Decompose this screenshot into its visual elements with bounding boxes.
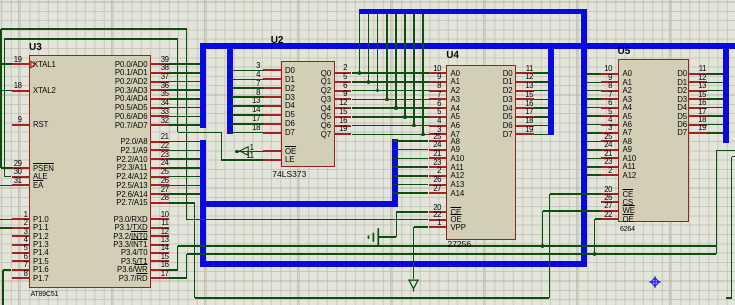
U5 pin number 22 — [604, 210, 612, 219]
U3 pin name P0.0/AD0 — [115, 60, 148, 69]
wire A14 from bus V3 to U4 — [393, 192, 428, 194]
U2 pin name Q0 — [321, 69, 331, 78]
U3 pin number 24 — [161, 158, 169, 167]
U3 pin name P0.1/AD1 — [115, 68, 148, 77]
wire U5 A8 from bus V5 — [586, 141, 601, 143]
wire U4 CE from pin — [396, 211, 428, 213]
wire U5 A9 from bus V5 — [586, 149, 601, 151]
U4 reference label — [446, 51, 459, 61]
wire A15 up to U5 CE — [549, 194, 551, 298]
U4 pin number 16 — [525, 99, 533, 108]
U4 pin name A0 — [451, 69, 460, 78]
U4 pin number 19 — [525, 125, 533, 134]
U3 pin name P0.6/AD6 — [115, 112, 148, 121]
U5 pin name CS — [623, 198, 634, 207]
wire P2.2/A10 to bus V1b — [169, 158, 201, 160]
U5 pin number 7 — [608, 90, 612, 99]
bus H1 top address bus — [359, 9, 587, 14]
U4 pin name A4 — [451, 104, 460, 113]
wire U5 WE horizontal — [543, 210, 601, 212]
U5 pin number 15 — [698, 90, 706, 99]
wire D2 from bus V2 to U2 — [231, 87, 265, 89]
U3 pin name P2.7/A15 — [116, 198, 147, 207]
U3 pin name P3.4 — [121, 248, 148, 257]
wire U4 D4 to bus V4 — [534, 107, 550, 109]
junction dot A2 riser — [376, 89, 380, 93]
U4 pin name OE — [451, 215, 462, 224]
U3 pin 10 stub P3.0 — [150, 218, 169, 220]
U5 pin 18 stub D6 — [688, 124, 707, 126]
U3 pin 7 stub P1.6 — [12, 269, 30, 271]
U4 pin name A10 — [451, 154, 465, 163]
U3 pin 30 stub — [12, 176, 30, 178]
U3 pin number 32 — [161, 116, 169, 125]
U3 pin name P2.6/A14 — [116, 190, 147, 199]
U3 pin number 2 — [24, 218, 28, 227]
junction dot OE-RD — [593, 252, 597, 256]
U3 pin number 29 — [14, 159, 22, 168]
wire WR/RD riser at right — [716, 151, 718, 255]
U5 pin number 24 — [604, 140, 612, 149]
U3 pin number 36 — [161, 81, 169, 90]
wire XTAL2 to off-sheet left — [0, 90, 12, 92]
wire U5 D5 to bus V6 — [707, 115, 724, 117]
bus V6 U5 data tap segment — [723, 46, 729, 143]
U4 pin name A1 — [451, 77, 460, 86]
U5 pin 11 stub D0 — [688, 73, 707, 75]
U5 pin name CE — [623, 190, 634, 199]
U2 pin number 5 — [343, 72, 347, 81]
bus V5 U5 address spine — [581, 12, 587, 267]
U2 pin number 6 — [343, 81, 347, 90]
U3 pin number 23 — [161, 150, 169, 159]
U4 pin 16 stub D4 — [515, 107, 534, 109]
U5 pin name WE — [623, 206, 635, 215]
U2 pin 5 stub Q1 — [334, 81, 352, 83]
U4 pin 3 stub A7 — [429, 133, 448, 135]
U4 pin 5 stub A5 — [429, 116, 448, 118]
U2 reference label — [271, 36, 284, 46]
U2 pin 19 stub Q7 — [334, 133, 352, 135]
U3 pin number 11 — [161, 218, 168, 227]
ground symbol (rotated) on U4 CE net — [366, 226, 382, 250]
U5 pin name D2 — [677, 86, 687, 95]
U4 pin 26 stub A13 — [429, 184, 448, 186]
U4 pin 13 stub D2 — [515, 90, 534, 92]
wire U5 D4 to bus V6 — [707, 107, 724, 109]
U2 pin number 3 — [256, 61, 260, 70]
U3 pin name RST — [33, 120, 48, 129]
U2 pin 8 stub D3 — [263, 96, 282, 98]
wire Q5 to U4 A5 — [352, 116, 429, 118]
U5 pin name A8 — [623, 137, 632, 146]
U4 pin 17 stub D5 — [515, 116, 534, 118]
wire A1 riser to top bus — [368, 14, 370, 82]
U5 pin 12 stub D1 — [688, 81, 707, 83]
U2 pin name D5 — [285, 110, 295, 119]
wire PSEN from pin — [1, 167, 12, 169]
wire D5 from bus V2 to U2 — [231, 114, 265, 116]
U3 pin number 10 — [161, 210, 169, 219]
U4 pin name D0 — [503, 69, 513, 78]
wire U5 D1 to bus V6 — [707, 82, 724, 84]
U3 pin 35 stub P0.4/AD4 — [150, 98, 169, 100]
wire A3 riser to top bus — [386, 14, 388, 99]
wire right edge riser — [731, 157, 733, 298]
junction dot A4 riser — [394, 106, 398, 110]
U3 pin number 27 — [161, 185, 169, 194]
U3 pin name <span class="ov">EA</span> — [33, 181, 43, 190]
U3 pin name P3.3 — [113, 240, 147, 249]
wire A0 riser to top bus — [359, 14, 361, 73]
wire P2.3/A11 to bus V1b — [169, 167, 201, 169]
U3 pin name P2.0/A8 — [120, 137, 147, 146]
U2 pin name Q6 — [321, 121, 331, 130]
U3 pin 13 stub P3.3 — [150, 244, 169, 246]
U3 pin number 8 — [24, 269, 28, 278]
U2 pin number 12 — [339, 98, 347, 107]
wire U4 D0 to bus V4 — [534, 72, 550, 74]
U4 pin name A12 — [451, 171, 465, 180]
wire P2.4/A12 to bus V1b — [169, 176, 201, 178]
U5 pin number 9 — [608, 73, 612, 82]
U4 pin 27 stub A14 — [429, 192, 448, 194]
U3 pin number 19 — [14, 55, 22, 64]
U5 pin number 19 — [698, 123, 706, 132]
U4 pin 12 stub D1 — [515, 81, 534, 83]
U2 pin name Q2 — [321, 86, 331, 95]
wire WR up — [177, 246, 179, 270]
U3 pin name P3.7 — [119, 274, 148, 283]
wire WR long to right — [178, 245, 717, 247]
U3 pin 8 stub P1.7 — [12, 277, 30, 279]
U4 pin name D4 — [503, 104, 513, 113]
junction dot A0 riser — [358, 71, 362, 75]
wire P0.7/AD7 to bus V1 — [169, 124, 201, 126]
U3 pin 14 stub P3.4 — [150, 252, 169, 254]
U4 pin 24 stub A9 — [429, 149, 448, 151]
wire A15 along bottom — [195, 297, 550, 299]
U3 pin 5 stub P1.4 — [12, 252, 30, 254]
U3 pin 6 stub P1.5 — [12, 260, 30, 262]
U4 pin name D5 — [503, 112, 513, 121]
U3 pin 4 stub P1.3 — [12, 244, 30, 246]
U5 pin 27 stub WE — [601, 210, 620, 212]
wire P0.3/AD3 to bus V1 — [169, 89, 201, 91]
U2 pin name OE — [285, 147, 296, 156]
U3 pin name P0.7/AD7 — [115, 121, 148, 130]
U2 pin number 13 — [252, 96, 260, 105]
U3 pin number 3 — [24, 227, 28, 236]
U5 pin name D3 — [677, 95, 687, 104]
wire A15 down column — [194, 203, 196, 298]
U5 pin number 8 — [608, 81, 612, 90]
wire P2.1/A9 to bus V1b — [169, 150, 201, 152]
U2 pin number 4 — [256, 70, 260, 79]
wire D7 from bus V2 to U2 — [231, 132, 265, 134]
U3 pin name P3.0 — [114, 215, 148, 224]
U5 pin name D1 — [677, 78, 687, 87]
wire A5 riser to top bus — [404, 14, 406, 117]
U5 pin name A6 — [623, 120, 632, 129]
U3 pin 15 stub P3.5 — [150, 260, 169, 262]
U3 pin number 33 — [161, 107, 169, 116]
U2 pin name D2 — [285, 84, 295, 93]
U3 pin name P1.0 — [33, 215, 49, 224]
U5 pin number 18 — [698, 115, 706, 124]
wire WR from P3.6 pin — [169, 269, 178, 271]
wire U5 A12 from bus V5 — [586, 174, 601, 176]
U5 pin number 16 — [698, 98, 706, 107]
U2 pin 13 stub D4 — [263, 105, 282, 107]
U4 pin name VPP — [451, 223, 466, 232]
wire U5 D7 to bus V6 — [707, 132, 724, 134]
U5 pin 2 stub A12 — [601, 174, 620, 176]
wire P1.0 to off-sheet left — [0, 219, 12, 221]
U4 pin number 5 — [437, 107, 441, 116]
U3 pin 34 stub P0.5/AD5 — [150, 107, 169, 109]
wire U5 A11 from bus V5 — [586, 166, 601, 168]
U3 pin number 21 — [161, 132, 169, 141]
U5 pin number 4 — [608, 115, 612, 124]
U3 pin 39 stub P0.0/AD0 — [150, 63, 169, 65]
U3 pin name P0.2/AD2 — [115, 77, 148, 86]
U5 pin number 10 — [604, 64, 612, 73]
U5 pin number 12 — [698, 73, 706, 82]
U5 pin name A4 — [623, 103, 632, 112]
U4 pin number 13 — [525, 81, 533, 90]
wire U4 CE to ground — [378, 236, 396, 238]
U3 pin name P0.3/AD3 — [115, 86, 148, 95]
U4 pin number 12 — [525, 72, 533, 81]
junction dot A7 riser — [421, 133, 425, 137]
U4 value label 27256 — [448, 240, 472, 248]
U2 pin number 1 — [250, 143, 254, 152]
wire U4 D6 to bus V4 — [534, 125, 550, 127]
U5 pin number 6 — [608, 98, 612, 107]
U5 pin 4 stub A6 — [601, 124, 620, 126]
U2 pin number 19 — [339, 124, 347, 133]
wire A13 from bus V3 to U4 — [393, 184, 428, 186]
U4 pin number 24 — [433, 140, 441, 149]
wire A6 riser to top bus — [413, 14, 415, 125]
U3 pin name P1.5 — [33, 257, 49, 266]
U2 pin number 7 — [256, 79, 260, 88]
U3 pin number 38 — [161, 63, 169, 72]
U5 pin number 25 — [604, 132, 612, 141]
wire PSEN to U4 OE pin — [187, 219, 429, 221]
U5 pin name D0 — [677, 69, 687, 78]
U2 pin name Q4 — [321, 104, 331, 113]
U3 pin number 31 — [14, 176, 22, 185]
bus V4 U4 data tap segment — [548, 46, 554, 135]
U3 pin name P3.1 — [115, 223, 148, 232]
U5 pin 17 stub D5 — [688, 115, 707, 117]
U5 pin name D7 — [677, 128, 687, 137]
U4 pin number 9 — [437, 72, 441, 81]
U2 pin 15 stub Q5 — [334, 116, 352, 118]
U3 pin name XTAL2 — [33, 86, 56, 95]
wire U4 VPP from pin — [414, 226, 429, 228]
U4 pin number 11 — [526, 64, 533, 73]
U2 pin 16 stub Q6 — [334, 125, 352, 127]
wire A4 riser to top bus — [395, 14, 397, 108]
U5 pin number 5 — [608, 107, 612, 116]
U4 pin 18 stub D6 — [515, 125, 534, 127]
wire ALE down to LE row — [221, 132, 223, 160]
U3 pin name P2.5/A13 — [116, 181, 147, 190]
junction dot A3 riser — [385, 98, 389, 102]
U3 pin 18 stub — [12, 90, 30, 92]
U2 pin number 17 — [252, 114, 260, 123]
U3 pin name P2.3/A11 — [117, 163, 148, 172]
U2 pin 3 stub D0 — [263, 69, 282, 71]
wire U4 D2 to bus V4 — [534, 90, 550, 92]
U4 pin number 6 — [437, 99, 441, 108]
wire P0.0/AD0 to bus V1 — [169, 63, 201, 65]
wire P2.5/A13 to bus V1b — [169, 185, 201, 187]
wire A8 from bus V3 to U4 — [393, 140, 428, 142]
wire P1.6 down to sheet edge — [2, 270, 4, 305]
U4 pin name D3 — [503, 95, 513, 104]
U4 pin 22 stub OE — [429, 219, 448, 221]
wire A12 from bus V3 to U4 — [393, 175, 428, 177]
U4 pin name D6 — [503, 121, 513, 130]
U3 pin number 30 — [14, 167, 22, 176]
U4 pin 23 stub A11 — [429, 166, 448, 168]
U4 pin 15 stub D3 — [515, 98, 534, 100]
U4 pin number 2 — [437, 166, 441, 175]
U2 pin number 8 — [256, 88, 260, 97]
U3 pin 9 stub — [12, 124, 30, 126]
latch U2 74LS373 body — [281, 61, 335, 167]
U4 pin 25 stub A8 — [429, 140, 448, 142]
U3 pin 1 stub P1.0 — [12, 218, 30, 220]
U4 pin name A9 — [451, 145, 460, 154]
U3 pin number 4 — [24, 235, 28, 244]
U5 pin 3 stub A7 — [601, 132, 620, 134]
U5 reference label — [618, 47, 631, 57]
wire U5 A5 from bus V5 — [586, 115, 601, 117]
wire Q7 to U4 A7 — [352, 134, 429, 136]
U5 pin name D5 — [677, 112, 687, 121]
U4 pin 19 stub D7 — [515, 133, 534, 135]
U2 pin number 2 — [343, 63, 347, 72]
junction dot A6 riser — [412, 124, 416, 128]
U5 pin name D4 — [677, 103, 687, 112]
U3 pin name P3.6 — [117, 265, 148, 274]
bus H2 main data bus — [200, 43, 735, 49]
U3 pin number 9 — [18, 115, 22, 124]
U3 pin name P1.4 — [33, 248, 49, 257]
wire P1.1 to off-sheet left — [0, 227, 12, 229]
wire U5 A7 from bus V5 — [586, 132, 601, 134]
U4 pin number 27 — [433, 184, 441, 193]
U5 pin number 21 — [604, 149, 612, 158]
U3 pin number 1 — [24, 210, 28, 219]
wire A10 from bus V3 to U4 — [393, 158, 428, 160]
U3 pin number 16 — [161, 260, 169, 269]
U2 pin 2 stub Q0 — [334, 72, 352, 74]
wire A11 from bus V3 to U4 — [393, 166, 428, 168]
U4 pin number 23 — [433, 158, 441, 167]
U5 pin name A12 — [623, 171, 637, 180]
U5 value label 6264 — [620, 226, 635, 234]
U3 pin name P1.2 — [33, 232, 49, 241]
U4 pin name A2 — [451, 86, 460, 95]
U4 pin name A7 — [451, 130, 460, 139]
wire Q4 to U4 A4 — [352, 107, 429, 109]
U3 pin 11 stub P3.1 — [150, 227, 169, 229]
U5 pin name A5 — [623, 112, 632, 121]
wire U5 D2 to bus V6 — [707, 90, 724, 92]
U3 pin name P0.5/AD5 — [115, 103, 148, 112]
U4 pin 4 stub A6 — [429, 125, 448, 127]
U3 pin number 34 — [161, 98, 169, 107]
U4 pin name D1 — [503, 77, 513, 86]
wire PSEN up left edge — [0, 29, 2, 168]
U2 pin number 18 — [252, 123, 260, 132]
U4 pin name A8 — [451, 137, 460, 146]
U2 pin number 16 — [339, 116, 347, 125]
U4 pin name A14 — [451, 189, 465, 198]
wire U5 A2 from bus V5 — [586, 90, 601, 92]
origin marker (blue diamond) — [647, 274, 663, 290]
U4 pin number 18 — [525, 116, 533, 125]
wire RD from P3.7 pin — [169, 277, 187, 279]
U4 pin number 20 — [433, 203, 441, 212]
U3 pin number 22 — [161, 141, 169, 150]
U3 pin name P2.4/A12 — [116, 172, 147, 181]
U3 pin number 18 — [14, 81, 22, 90]
U2 pin 12 stub Q4 — [334, 107, 352, 109]
U4 pin number 3 — [437, 125, 441, 134]
wire P0.2/AD2 to bus V1 — [169, 81, 201, 83]
U4 pin number 8 — [437, 81, 441, 90]
U5 pin number 26 — [604, 193, 612, 202]
wire U5 OE horizontal — [595, 218, 601, 220]
wire U5 CE from riser — [550, 193, 602, 195]
U2 pin number 14 — [252, 105, 260, 114]
U2 pin 1 stub OE — [263, 150, 282, 152]
U4 pin name D7 — [503, 130, 513, 139]
U4 pin number 22 — [433, 210, 441, 219]
U4 pin number 26 — [433, 175, 441, 184]
U2 pin name D6 — [285, 119, 295, 128]
U3 pin name XTAL1 — [33, 60, 56, 69]
input terminal triangle at U2 OE — [239, 144, 253, 158]
U2 pin name Q3 — [321, 95, 331, 104]
wire A7 riser to top bus — [422, 14, 424, 134]
U3 pin 25 stub P2.4/A12 — [150, 176, 169, 178]
U5 pin name OE — [623, 215, 634, 224]
wire bottom right hook — [726, 297, 732, 299]
U2 pin name D4 — [285, 101, 295, 110]
U3 pin 31 stub — [12, 184, 30, 186]
U5 pin name A3 — [623, 95, 632, 104]
U4 pin name A5 — [451, 112, 460, 121]
U5 pin 16 stub D4 — [688, 107, 707, 109]
U4 pin number 25 — [433, 132, 441, 141]
wire A15 from P2.7 pin — [169, 202, 195, 204]
U4 pin number 17 — [525, 107, 533, 116]
U2 pin number 9 — [343, 89, 347, 98]
bus V1b P2 tap segment — [200, 140, 206, 267]
U3 pin number 17 — [161, 269, 169, 278]
wire U4 D1 to bus V4 — [534, 81, 550, 83]
U3 pin number 37 — [161, 72, 169, 81]
wire D1 from bus V2 to U2 — [231, 79, 265, 81]
